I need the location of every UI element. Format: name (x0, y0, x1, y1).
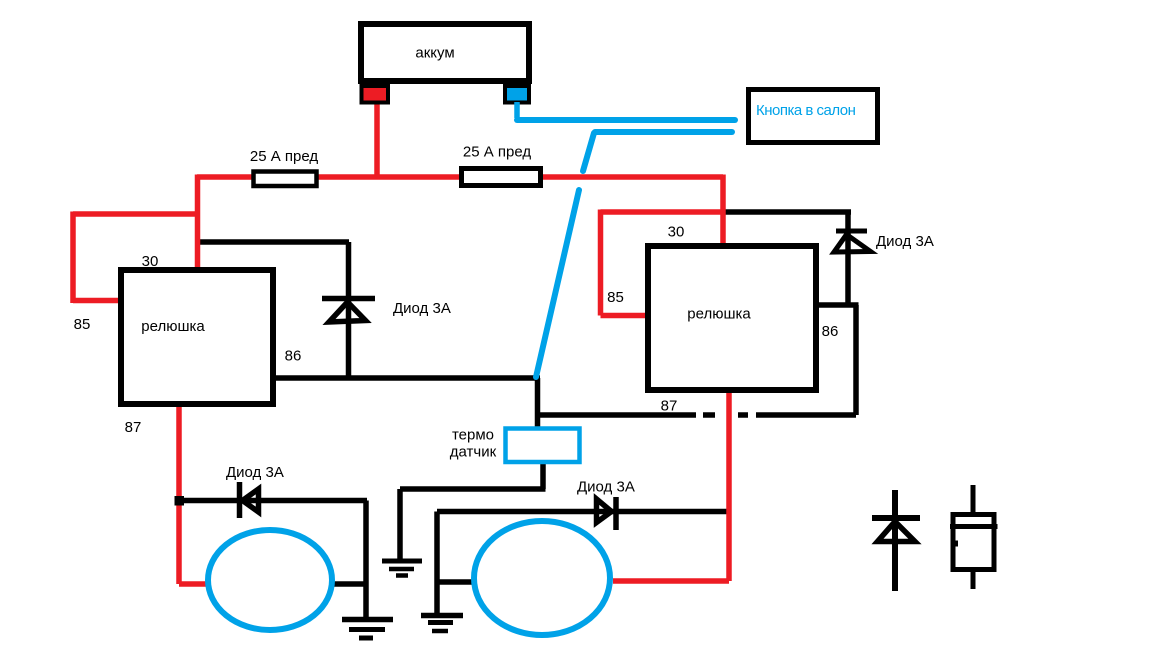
svg-text:30: 30 (142, 253, 159, 270)
svg-text:25 А пред: 25 А пред (250, 148, 319, 165)
svg-text:релюшка: релюшка (141, 318, 205, 335)
svg-text:аккум: аккум (415, 45, 454, 62)
svg-text:Диод 3А: Диод 3А (876, 233, 934, 250)
svg-text:Диод 3А: Диод 3А (226, 464, 284, 481)
svg-text:Диод 3А: Диод 3А (393, 300, 451, 317)
svg-text:30: 30 (668, 224, 685, 241)
svg-text:87: 87 (125, 419, 142, 436)
svg-text:87: 87 (661, 398, 678, 415)
svg-text:86: 86 (285, 348, 302, 365)
svg-text:релюшка: релюшка (687, 306, 751, 323)
svg-text:25 А пред: 25 А пред (463, 144, 532, 161)
svg-text:Кнопка в салон: Кнопка в салон (756, 102, 856, 119)
svg-text:85: 85 (607, 289, 624, 306)
svg-text:86: 86 (822, 323, 839, 340)
svg-text:датчик: датчик (450, 444, 497, 461)
svg-text:термо: термо (452, 427, 494, 444)
svg-text:Диод 3А: Диод 3А (577, 479, 635, 496)
svg-text:85: 85 (74, 316, 91, 333)
